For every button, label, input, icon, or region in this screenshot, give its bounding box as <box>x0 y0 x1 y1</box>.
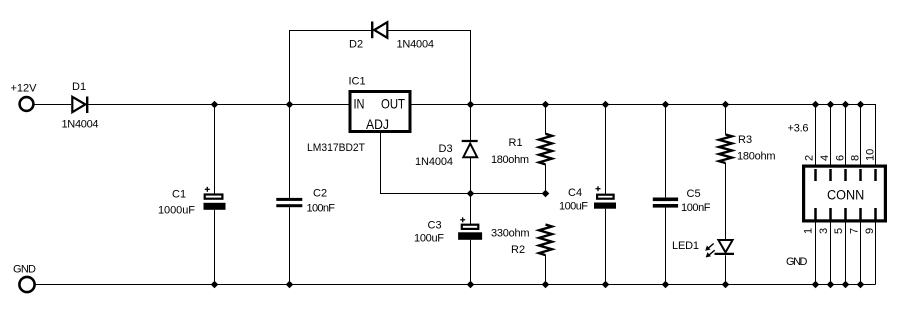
svg-text:2: 2 <box>803 155 815 161</box>
svg-text:D1: D1 <box>72 81 86 93</box>
capacitor C4 <box>594 186 616 209</box>
diode D1 <box>72 97 87 114</box>
wire C3 bottom <box>470 240 472 285</box>
wire terminal to D1 <box>34 104 71 106</box>
svg-text:C3: C3 <box>428 220 442 232</box>
ground terminal GND <box>19 277 34 292</box>
svg-text:1N4004: 1N4004 <box>415 156 453 168</box>
label C1 <box>172 189 186 201</box>
wire conn pin8 <box>860 105 862 165</box>
capacitor C1 <box>204 187 226 210</box>
svg-text:D2: D2 <box>349 39 363 51</box>
junction C1 gnd <box>211 281 219 289</box>
label 180ohm (R3) <box>737 151 776 163</box>
label D2 <box>349 39 363 51</box>
connector CONN <box>804 166 886 221</box>
wire R2 bottom <box>545 255 547 284</box>
label 1000uF <box>158 205 195 217</box>
label C5 <box>687 188 701 200</box>
svg-text:100uF: 100uF <box>414 233 444 245</box>
svg-text:+12V: +12V <box>11 83 38 95</box>
svg-text:1000uF: 1000uF <box>158 205 195 217</box>
pin ADJ <box>366 116 389 132</box>
diode D3 <box>462 141 478 157</box>
junction conn pin5 bottom <box>842 281 850 289</box>
label 180ohm (R1) <box>491 154 529 166</box>
wire C4 top <box>605 105 607 195</box>
junction R1 top <box>542 101 550 109</box>
label CONN <box>827 188 864 203</box>
label LM317BD2T <box>307 142 365 154</box>
svg-text:6: 6 <box>835 155 847 161</box>
wire C5 top <box>665 105 667 198</box>
junction conn pin1 bottom <box>812 281 820 289</box>
wire R1 bottom <box>545 164 547 193</box>
pin OUT <box>381 96 405 112</box>
junction conn pin8 top <box>857 101 865 109</box>
svg-text:10: 10 <box>865 149 877 161</box>
wire C2 bottom <box>289 207 291 284</box>
wire conn pin2 <box>815 105 817 165</box>
op-amp regulator IC1 <box>350 92 410 132</box>
pin number 5 <box>833 228 845 234</box>
wire ADJ net <box>381 133 546 194</box>
svg-text:100nF: 100nF <box>681 202 711 214</box>
pin number 4 <box>819 155 831 161</box>
wire conn pins bottom <box>816 223 876 285</box>
wire C1 top <box>214 105 216 194</box>
label 1N4004 (D1) <box>62 119 99 131</box>
label LED1 <box>672 240 699 252</box>
diode D2 <box>372 22 387 39</box>
label 330ohm (R2) <box>491 228 530 240</box>
pin stubs top <box>816 169 876 181</box>
label IC1 <box>349 76 366 88</box>
wire R3 top <box>725 105 727 135</box>
label 100nF (C2) <box>307 203 336 215</box>
svg-text:8: 8 <box>850 155 862 161</box>
svg-text:100nF: 100nF <box>307 203 336 215</box>
wire conn pin6 <box>845 105 847 165</box>
svg-text:3: 3 <box>818 228 830 234</box>
capacitor C2 <box>276 198 302 207</box>
wire top loop right <box>389 31 471 105</box>
wire R3 to LED1 <box>725 163 727 239</box>
label +12V <box>11 83 38 95</box>
label 1N4004 (D3) <box>415 156 453 168</box>
svg-text:C5: C5 <box>687 188 701 200</box>
wire ground rail <box>36 284 876 286</box>
resistor R2 <box>539 225 552 256</box>
capacitor C5 <box>653 198 678 208</box>
pin number 9 <box>864 228 876 234</box>
svg-text:7: 7 <box>849 228 861 234</box>
junction C5 gnd <box>662 281 670 289</box>
wire C1 bottom <box>214 210 216 285</box>
junction conn pin7 bottom <box>857 281 865 289</box>
junction conn pin2 top <box>812 101 820 109</box>
label GND (terminal) <box>13 264 36 276</box>
svg-text:LED1: LED1 <box>672 240 699 252</box>
label R1 <box>509 137 523 149</box>
LED LED1 <box>705 240 734 258</box>
svg-text:R2: R2 <box>511 244 525 256</box>
svg-text:5: 5 <box>833 228 845 234</box>
svg-text:R3: R3 <box>738 134 752 146</box>
wire conn pin4 <box>830 105 832 165</box>
pin number 7 <box>849 228 861 234</box>
junction R3 top <box>722 101 730 109</box>
svg-text:GND: GND <box>13 264 36 276</box>
pin stubs bottom <box>816 208 876 220</box>
wire D1 to IC1 IN <box>89 104 349 106</box>
svg-text:4: 4 <box>819 155 831 161</box>
label R2 <box>511 244 525 256</box>
svg-text:9: 9 <box>864 228 876 234</box>
junction C5 top <box>662 101 670 109</box>
label 100uF (C4) <box>559 201 588 213</box>
pin number 10 <box>865 149 877 161</box>
label D1 <box>72 81 86 93</box>
pin number 8 <box>850 155 862 161</box>
label +3.6 <box>788 123 809 135</box>
wire OUT rail <box>412 104 877 106</box>
junction node C1/rail <box>211 101 219 109</box>
label 100nF (C5) <box>681 202 711 214</box>
junction conn pin4 top <box>827 101 835 109</box>
terminal +12V <box>20 97 34 111</box>
junction OUT/D2 node <box>467 101 475 109</box>
junction node C2/rail <box>286 101 294 109</box>
junction conn pin6 top <box>842 101 850 109</box>
label 1N4004 (D2) <box>397 39 435 51</box>
svg-text:180ohm: 180ohm <box>491 154 529 166</box>
pin IN <box>354 96 365 112</box>
junction LED1 gnd <box>722 281 730 289</box>
svg-text:IN: IN <box>354 96 365 112</box>
label R3 <box>738 134 752 146</box>
wire C3 top <box>470 194 472 225</box>
label C3 <box>428 220 442 232</box>
pin number 2 <box>803 155 815 161</box>
wire C4 bottom <box>605 209 607 285</box>
label 100uF (C3) <box>414 233 444 245</box>
svg-text:330ohm: 330ohm <box>491 228 530 240</box>
svg-text:1: 1 <box>803 228 815 234</box>
junction C4 top <box>602 101 610 109</box>
label GND (connector) <box>786 256 808 268</box>
svg-text:IC1: IC1 <box>349 76 366 88</box>
svg-text:R1: R1 <box>509 137 523 149</box>
junction C2 gnd <box>286 281 294 289</box>
label D3 <box>439 143 453 155</box>
svg-text:D3: D3 <box>439 143 453 155</box>
svg-text:1N4004: 1N4004 <box>62 119 99 131</box>
junction ADJ/D3/C3 <box>467 190 475 198</box>
wire R1 top <box>545 105 547 135</box>
junction conn pin3 bottom <box>827 281 835 289</box>
pin number 6 <box>835 155 847 161</box>
wire D3 top <box>470 105 472 142</box>
junction C4 gnd <box>602 281 610 289</box>
wire conn pin10 <box>875 105 877 165</box>
svg-text:100uF: 100uF <box>559 201 588 213</box>
capacitor C3 <box>458 217 482 240</box>
junction C3 gnd <box>467 281 475 289</box>
svg-text:GND: GND <box>786 256 808 268</box>
resistor R1 <box>539 134 552 165</box>
svg-text:ADJ: ADJ <box>366 116 389 132</box>
svg-text:C4: C4 <box>568 187 582 199</box>
resistor R3 <box>719 135 732 164</box>
svg-text:C2: C2 <box>313 188 327 200</box>
svg-text:1N4004: 1N4004 <box>397 39 435 51</box>
svg-text:+3.6: +3.6 <box>788 123 809 135</box>
wire D3 bottom <box>470 157 472 193</box>
pin number 3 <box>818 228 830 234</box>
svg-text:LM317BD2T: LM317BD2T <box>307 142 365 154</box>
wire top loop left vertical / C2 top <box>290 31 372 199</box>
wire LED1 bottom <box>725 255 727 284</box>
label C2 <box>313 188 327 200</box>
junction ADJ/R1/R2 <box>542 190 550 198</box>
svg-text:C1: C1 <box>172 189 186 201</box>
pin number 1 <box>803 228 815 234</box>
svg-text:180ohm: 180ohm <box>737 151 776 163</box>
svg-text:CONN: CONN <box>827 188 864 203</box>
junction R2 gnd <box>542 281 550 289</box>
label C4 <box>568 187 582 199</box>
wire C5 bottom <box>665 208 667 285</box>
svg-text:OUT: OUT <box>381 96 405 112</box>
